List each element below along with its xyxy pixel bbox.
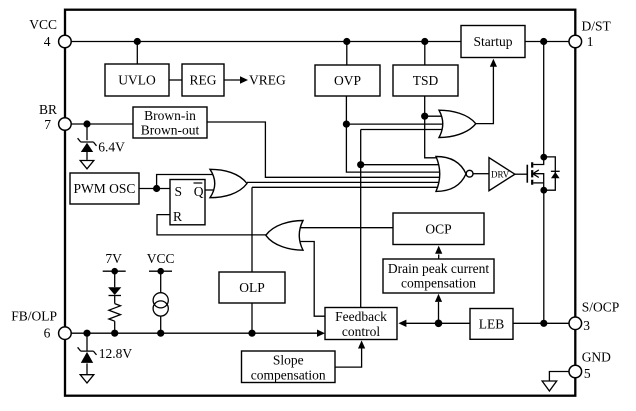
svg-text:GND: GND	[582, 350, 611, 365]
svg-text:Brown-in: Brown-in	[144, 108, 196, 123]
svg-text:VREG: VREG	[249, 73, 286, 88]
svg-text:7V: 7V	[105, 251, 122, 266]
svg-text:VCC: VCC	[147, 251, 175, 266]
svg-text:compensation: compensation	[251, 368, 326, 383]
svg-text:R: R	[173, 209, 182, 224]
svg-text:OLP: OLP	[239, 280, 265, 295]
svg-text:OVP: OVP	[334, 73, 361, 88]
svg-text:Slope: Slope	[273, 353, 304, 368]
svg-text:S/OCP: S/OCP	[582, 300, 620, 315]
svg-text:PWM OSC: PWM OSC	[74, 181, 136, 196]
svg-text:DRV: DRV	[491, 169, 510, 179]
svg-text:Brown-out: Brown-out	[141, 122, 200, 137]
svg-text:Q: Q	[194, 184, 204, 199]
svg-text:S: S	[175, 184, 183, 199]
svg-text:VCC: VCC	[29, 17, 57, 32]
svg-text:1: 1	[587, 34, 594, 49]
svg-text:6: 6	[44, 325, 51, 340]
svg-text:LEB: LEB	[479, 316, 505, 331]
svg-text:UVLO: UVLO	[118, 73, 156, 88]
svg-text:OCP: OCP	[425, 221, 451, 236]
svg-text:4: 4	[44, 34, 51, 49]
svg-text:Startup: Startup	[474, 34, 513, 49]
svg-text:BR: BR	[39, 102, 57, 117]
svg-text:3: 3	[583, 318, 590, 333]
svg-text:6.4V: 6.4V	[98, 140, 125, 155]
svg-text:D/ST: D/ST	[582, 18, 612, 33]
svg-text:compensation: compensation	[401, 275, 476, 290]
svg-text:5: 5	[584, 366, 591, 381]
svg-text:REG: REG	[190, 73, 217, 88]
svg-text:12.8V: 12.8V	[99, 346, 133, 361]
svg-text:TSD: TSD	[413, 73, 439, 88]
svg-text:control: control	[342, 324, 380, 339]
svg-text:Feedback: Feedback	[335, 309, 387, 324]
svg-text:Drain peak current: Drain peak current	[388, 261, 489, 276]
svg-text:FB/OLP: FB/OLP	[11, 309, 57, 324]
svg-text:7: 7	[44, 117, 51, 132]
